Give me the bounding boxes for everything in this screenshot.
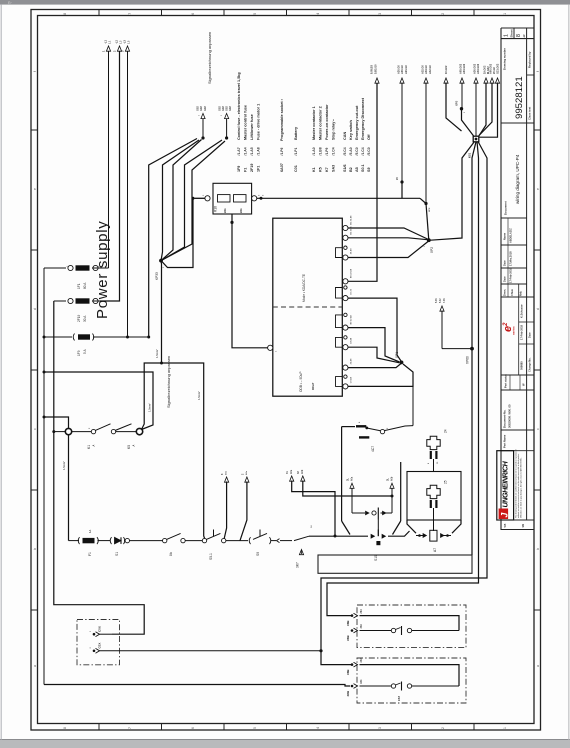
connector box X8B upper (357, 605, 466, 648)
svg-text:Part status: Part status (504, 374, 508, 388)
contact S5.1 (202, 538, 206, 542)
resistor block R18 box (213, 183, 252, 214)
contact K5 (111, 429, 115, 433)
svg-text:d: d (536, 308, 540, 310)
wire R18 left pin (195, 197, 205, 199)
contact row 513 switch (372, 511, 376, 515)
svg-text:K1: K1 (312, 167, 316, 172)
svg-text:6: 6 (191, 13, 195, 15)
svg-text:22k: 22k (223, 208, 227, 213)
wire pin347 to XP1 (348, 347, 400, 363)
svg-text:Off: Off (367, 134, 371, 140)
svg-text:Fuse - drive motor 1: Fuse - drive motor 1 (257, 104, 261, 140)
svg-text:-L2: -L2 (115, 40, 119, 44)
svg-text:a: a (536, 665, 540, 667)
svg-text:5: 5 (253, 13, 257, 15)
svg-text:e: e (536, 188, 540, 190)
arrow 486 (484, 78, 488, 83)
wire 4C7 left down box edge (341, 427, 343, 521)
svg-text:e: e (33, 188, 37, 190)
svg-text:SA3: SA3 (332, 165, 336, 172)
contact 4C7 blade (366, 428, 381, 431)
svg-text:Emergency cut-out: Emergency cut-out (355, 105, 359, 140)
svg-text:Lift/lower fuse: Lift/lower fuse (250, 114, 254, 140)
wire pin257 to XP2 (348, 242, 428, 258)
pin controller left (268, 345, 273, 350)
relay box K25 (407, 472, 461, 521)
wire riser L2 (100, 51, 120, 301)
junction cox b (319, 649, 322, 652)
svg-text:/1.A7: /1.A7 (237, 147, 241, 155)
contact 4C7 common (380, 429, 384, 433)
svg-text:/1.C4: /1.C4 (332, 147, 336, 155)
arrow XPS wire (460, 78, 464, 83)
svg-text:C01: C01 (294, 165, 298, 172)
relay K25 terminals (430, 500, 432, 508)
connector srow (277, 539, 280, 543)
svg-text:X8X: X8X (360, 679, 363, 684)
svg-text:1.5mm²: 1.5mm² (197, 391, 201, 400)
arrow group G02 a (201, 136, 204, 139)
wire 26 to XP2 (426, 204, 429, 241)
bus valve right (388, 531, 410, 536)
wire XP1 down (412, 372, 414, 426)
svg-text:C0 A8: C0 A8 (350, 376, 353, 383)
svg-text:UNGHEINRICH: UNGHEINRICH (501, 460, 510, 507)
svg-text:f: f (536, 71, 540, 72)
fuse 1F1 (68, 265, 73, 270)
arrow group G02 b (225, 136, 228, 139)
svg-text:7.06: 7.06 (444, 298, 446, 303)
svg-text:Z8X: Z8X (360, 624, 363, 629)
svg-text:1.5mm²: 1.5mm² (155, 349, 159, 358)
bottom bus (44, 685, 350, 687)
svg-text:10.G02: 10.G02 (444, 65, 448, 74)
svg-text:4: 4 (316, 13, 320, 15)
svg-text:Key switch: Key switch (349, 119, 353, 140)
svg-text:X8B: X8B (346, 691, 350, 697)
svg-text:W5: W5 (504, 523, 507, 527)
controller small pins (344, 246, 347, 249)
svg-text:B0 22 A8: B0 22 A8 (350, 268, 353, 278)
right page edge (568, 5, 570, 740)
controller box (273, 218, 343, 396)
wire K5 stud left (54, 431, 66, 433)
svg-text:1S7: 1S7 (397, 695, 401, 701)
svg-text:Drwn.: Drwn. (503, 289, 507, 296)
svg-text:X8X: X8X (360, 658, 363, 663)
border column ticks (98, 10, 100, 16)
svg-text:C8 A8: C8 A8 (350, 337, 353, 344)
svg-text:Programmable socket ▪: Programmable socket ▪ (280, 98, 284, 141)
wire 1F9 left (44, 336, 72, 338)
left bus vertical (43, 268, 45, 685)
fuse row A7 (416, 535, 451, 537)
arrow 1.L+ (106, 46, 110, 51)
wire pin386 to XP1 (348, 364, 413, 386)
switch u (391, 628, 395, 632)
terminal K1 stud (65, 428, 71, 434)
svg-text:20 A8: 20 A8 (350, 248, 353, 255)
svg-text:7: 7 (128, 727, 132, 729)
svg-text:30 A: 30 A (83, 315, 87, 322)
svg-text:Power-on contactor: Power-on contactor (325, 104, 329, 140)
wire inside l2 (360, 685, 392, 687)
svg-text:17-Feb-2018: 17-Feb-2018 (520, 324, 524, 340)
wire star down (160, 261, 163, 363)
svg-text:KP33: KP33 (155, 272, 159, 280)
svg-text:G02: G02 (222, 106, 225, 111)
wire XP60 branch h (442, 348, 472, 350)
svg-text:CAN: CAN (343, 132, 347, 140)
svg-text:Part Name: Part Name (503, 434, 507, 448)
fuse 2F19 (68, 298, 73, 303)
svg-text:a: a (33, 665, 37, 667)
wire star to R18 (161, 198, 205, 267)
svg-text:Offenders are liable to pay da: Offenders are liable to pay damages. All… (520, 457, 523, 518)
svg-text:X8B: X8B (346, 635, 350, 641)
svg-text:/5.A0: /5.A0 (349, 147, 353, 155)
svg-text:b: b (536, 548, 540, 550)
svg-text:-L3: -L3 (123, 40, 127, 44)
wire srow mid (226, 540, 248, 542)
arrow 2.L+ (117, 46, 121, 51)
wire pin298 to XP1 (348, 298, 401, 361)
svg-text:5.02: 5.02 (440, 298, 442, 303)
svg-text:1.5mm²: 1.5mm² (62, 461, 66, 470)
svg-text:25: 25 (444, 480, 448, 484)
svg-text:A00.G0: A00.G0 (400, 65, 404, 74)
wire pin281 riser (348, 82, 377, 281)
svg-text:Class text: Class text (528, 107, 532, 120)
svg-text:G02: G02 (226, 106, 229, 111)
arrow A20 group (400, 78, 404, 83)
svg-text:/1.A5: /1.A5 (250, 147, 254, 155)
svg-text:XP60: XP60 (466, 356, 470, 364)
svg-text:3K7: 3K7 (296, 562, 300, 568)
svg-text:8b: 8b (169, 552, 173, 556)
wire inside u2 (360, 630, 392, 632)
wire branch y372 to K5 (44, 372, 153, 430)
svg-text:Signalbezeichnung anpassen: Signalbezeichnung anpassen (207, 32, 212, 84)
svg-text:G02: G02 (200, 106, 203, 111)
wire K51 to LV3 (327, 142, 479, 616)
svg-text:Control fuse - electronics tra: Control fuse - electronics travel 1,5kg (237, 72, 241, 140)
junction 1F9 riser (126, 336, 129, 339)
svg-text:1: 1 (503, 13, 507, 15)
contact 4C7 NO bar (356, 425, 366, 427)
svg-text:XP2: XP2 (430, 247, 434, 253)
border row ticks (31, 129, 38, 131)
svg-text:A0b: A0b (390, 476, 393, 481)
top grey window bar (0, 0, 570, 5)
svg-text:S9: S9 (367, 167, 371, 172)
svg-text:K51: K51 (468, 152, 472, 158)
svg-text:Drawing number: Drawing number (503, 47, 507, 70)
svg-text:b: b (33, 548, 37, 550)
svg-text:22k: 22k (239, 208, 243, 213)
svg-text:C0X: C0X (98, 643, 102, 649)
svg-text:Chkd.: Chkd. (510, 289, 514, 296)
svg-text:/1.A0: /1.A0 (312, 147, 316, 155)
arrow riser 3L a (350, 483, 354, 488)
arrow pin281 top (375, 78, 379, 83)
resistor R18a (218, 195, 231, 202)
bus A7 right chamfer (452, 520, 461, 533)
svg-text:1.5mm²: 1.5mm² (148, 403, 152, 412)
svg-text:G21.G02: G21.G02 (496, 63, 500, 74)
svg-text:K7: K7 (325, 167, 329, 172)
title block divider x526 (526, 28, 528, 520)
valve box chamfer right (393, 521, 401, 535)
wire XPS to K51 (462, 109, 475, 137)
svg-text:24: 24 (444, 429, 448, 433)
svg-text:2F19: 2F19 (77, 315, 81, 322)
svg-text:B0 22 A8: B0 22 A8 (350, 314, 353, 324)
svg-text:S5.1: S5.1 (209, 553, 213, 560)
relay K24 terminals (430, 451, 432, 459)
svg-text:K1: K1 (87, 445, 91, 449)
relay K24 cross (427, 436, 440, 449)
svg-text:1F1: 1F1 (257, 166, 261, 172)
arrow riser 31 A0a (290, 476, 294, 481)
arrow riser 3L b (390, 483, 394, 488)
terminal 127 (125, 538, 129, 542)
svg-text:Battery: Battery (294, 126, 298, 140)
svg-text:Document: Document (504, 201, 508, 215)
drawing number cell bottom (501, 122, 534, 124)
svg-text:Date: Date (503, 260, 507, 266)
svg-text:1F9: 1F9 (237, 166, 241, 172)
svg-text:A30.G02: A30.G02 (472, 63, 476, 74)
valve box right edge (400, 462, 402, 521)
bus valve left (309, 535, 368, 537)
fuse 1F9 (73, 334, 74, 341)
svg-text:17.Mrz.2018: 17.Mrz.2018 (509, 251, 513, 266)
svg-text:K5: K5 (127, 445, 131, 449)
svg-text:/1.P6: /1.P6 (280, 147, 284, 155)
svg-text:R18: R18 (214, 206, 218, 212)
svg-text:G02: G02 (197, 106, 200, 111)
svg-text:G02: G02 (229, 106, 232, 111)
node K51 square (473, 136, 479, 142)
svg-text:8.05.B3: 8.05.B3 (370, 64, 374, 74)
svg-text:Master contactor 1: Master contactor 1 (312, 106, 316, 140)
svg-text:f: f (33, 71, 37, 72)
switch l 1S7 (391, 684, 395, 688)
svg-text:99528121: 99528121 (514, 76, 525, 119)
wire fan v4 (161, 141, 225, 261)
contact row 513 left (352, 512, 365, 514)
svg-text:3: 3 (378, 727, 382, 729)
terminal K5 stud (136, 428, 142, 434)
wire inside u1 (360, 616, 460, 631)
wire inside l3 (412, 685, 459, 687)
contact 8b (163, 538, 167, 542)
svg-text:Name: Name (503, 232, 507, 240)
svg-text:B2: B2 (349, 167, 353, 172)
svg-text:A5: A5 (355, 167, 359, 172)
svg-text:Z8X: Z8X (360, 609, 363, 614)
svg-text:4C7: 4C7 (371, 446, 375, 452)
svg-text:5.B3.G0: 5.B3.G0 (374, 64, 378, 74)
svg-text:-L1: -L1 (104, 40, 108, 44)
contact 4C7 NC bar (359, 436, 369, 438)
arrow 8A0a (225, 477, 229, 482)
arrow 476 (474, 78, 478, 83)
svg-text:1F1: 1F1 (77, 283, 81, 289)
wire K5 riser (142, 363, 206, 541)
enclosure box (318, 555, 472, 573)
wire 2F19-left down (54, 301, 144, 634)
svg-text:X8B: X8B (346, 620, 350, 626)
svg-text:1A: 1A (88, 530, 92, 533)
svg-text:3L: 3L (387, 478, 390, 481)
node XP60 (470, 347, 474, 351)
svg-text:Sheet: Sheet (510, 29, 514, 37)
svg-text:C0 22: C0 22 (351, 288, 353, 295)
svg-text:9DuT: 9DuT (311, 382, 315, 390)
svg-text:C0X: C0X (98, 626, 102, 632)
wire pin237 to XP2 (348, 238, 428, 240)
wire F1 feed (68, 435, 70, 541)
svg-text:/5.C4: /5.C4 (343, 147, 347, 155)
junction 20pc (400, 180, 403, 183)
node KP33 (159, 259, 163, 263)
wire K24 to K25box (433, 459, 435, 472)
controller divider dashed (273, 306, 343, 308)
svg-text:S0.1: S0.1 (361, 164, 365, 172)
wire star fan v1 (161, 140, 199, 261)
controller right pins (343, 225, 348, 230)
svg-text:Date: Date (503, 276, 507, 282)
svg-text:Date: Date (528, 332, 532, 338)
svg-text:3L: 3L (347, 478, 350, 481)
svg-text:SM: SM (522, 524, 525, 528)
svg-text:c: c (33, 428, 37, 430)
svg-text:ABDELAZIZ: ABDELAZIZ (509, 228, 513, 243)
svg-text:/1.P9: /1.P9 (325, 147, 329, 155)
svg-text:Stop relay ▪: Stop relay ▪ (332, 119, 336, 140)
jungheinrich red square (499, 509, 509, 520)
wire riser L1 (108, 51, 110, 268)
wire K51 to LV2 long (472, 142, 476, 555)
svg-text:F1: F1 (88, 552, 92, 556)
wire K1 row (72, 431, 92, 433)
title cell bottom (501, 217, 527, 219)
svg-text:Change No.: Change No. (528, 357, 532, 372)
svg-text:2: 2 (441, 727, 445, 729)
controller pin jumpers (336, 248, 343, 258)
svg-text:A33.G02: A33.G02 (476, 63, 480, 74)
resistor R18b (234, 195, 247, 202)
connector box X8B lower (357, 658, 466, 703)
svg-text:19.G02: 19.G02 (482, 65, 486, 74)
svg-text:XPS: XPS (455, 101, 459, 106)
svg-text:5: 5 (253, 727, 257, 729)
wire K51 to LV4 (321, 142, 487, 665)
junction XPS (460, 107, 463, 110)
svg-text:A05.G02: A05.G02 (458, 63, 462, 74)
relay K25 cross (427, 485, 440, 498)
contact K1 (91, 429, 95, 433)
svg-text:22 A8: 22 A8 (350, 358, 353, 365)
svg-text:XP1: XP1 (395, 352, 399, 358)
pin R18 right (252, 196, 257, 201)
svg-text:Replaced by: Replaced by (528, 51, 532, 68)
arrow 3.L+ (125, 46, 129, 51)
svg-text:X8B: X8B (346, 669, 350, 675)
svg-text:K.Schuster: K.Schuster (520, 304, 524, 318)
svg-text:A00.G02: A00.G02 (488, 63, 492, 74)
wire pin367 to XP1 (348, 364, 401, 368)
arrow 10 wire (444, 78, 448, 83)
pin R18 left (205, 196, 210, 201)
arrow 492 (490, 78, 494, 83)
contact link bar (377, 520, 379, 530)
bus A7 left chamfer (407, 520, 416, 533)
title block left edge (500, 28, 502, 530)
svg-text:Master contactor 2: Master contactor 2 (319, 106, 323, 140)
contact 3K7 (294, 536, 309, 540)
svg-text:S1/6: S1/6 (343, 164, 347, 172)
fuse F1 (78, 537, 79, 544)
svg-text:B5 22 A8: B5 22 A8 (350, 215, 353, 225)
svg-text:series: series (512, 326, 516, 335)
svg-text:.A: .A (133, 444, 136, 447)
svg-text:c: c (536, 428, 540, 430)
svg-text:2F19: 2F19 (250, 164, 254, 172)
svg-text:/1.B8: /1.B8 (319, 147, 323, 155)
left page edge (0, 5, 2, 740)
valve box chamfer left (342, 521, 350, 535)
svg-text:17-Feb-2018: 17-Feb-2018 (509, 267, 513, 283)
wire 1F1 left (44, 267, 66, 269)
svg-text:A32.G0: A32.G0 (421, 65, 425, 74)
svg-text:Mode ▪ KDA/DC-TE: Mode ▪ KDA/DC-TE (302, 274, 306, 302)
wire R18 bottom junction (232, 214, 270, 348)
contact S10 (377, 530, 379, 537)
junction 26pc (424, 202, 427, 205)
wire K51 to LV1 (431, 142, 475, 241)
svg-text:8: 8 (63, 727, 67, 729)
svg-text:A0a: A0a (290, 469, 293, 474)
svg-text:Document-No.: Document-No. (503, 409, 507, 428)
node XP2 (427, 238, 431, 242)
contact S9 (249, 537, 250, 544)
svg-text:S9: S9 (256, 552, 260, 556)
svg-text:Master control fuse: Master control fuse (244, 105, 248, 140)
diode S1 (110, 537, 111, 544)
svg-text:80 A: 80 A (83, 282, 87, 289)
svg-text:A7: A7 (433, 548, 437, 552)
svg-text:/5.C0: /5.C0 (367, 147, 371, 155)
title block bottom cells (497, 519, 534, 521)
wire inside u3 (412, 630, 459, 632)
svg-text:G02: G02 (204, 106, 207, 111)
logo cell bottom (501, 374, 534, 376)
wire 4C7 row left (342, 426, 355, 428)
svg-text:/1.A8: /1.A8 (257, 147, 261, 155)
svg-text:A20.G0: A20.G0 (397, 65, 401, 74)
svg-text:5.06: 5.06 (436, 298, 438, 303)
svg-text:7: 7 (128, 13, 132, 15)
arrow 2A0a (245, 477, 249, 482)
svg-text:n·: n· (8, 0, 12, 5)
cox dashdot box (77, 620, 120, 665)
svg-text:2: 2 (441, 13, 445, 15)
wire 2F19 left (54, 300, 66, 302)
